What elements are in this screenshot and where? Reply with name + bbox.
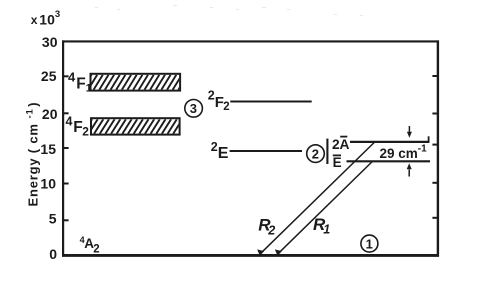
svg-text:2A: 2A: [332, 137, 349, 152]
svg-text:): ): [25, 102, 40, 106]
svg-text:3: 3: [190, 101, 197, 116]
svg-text:2: 2: [208, 89, 215, 103]
brace bar grouping 2A and E: [326, 139, 328, 164]
svg-text:2: 2: [93, 244, 99, 256]
axis frame box: [62, 40, 439, 256]
svg-text:0: 0: [49, 246, 57, 262]
svg-text:5: 5: [49, 211, 57, 227]
transition R1 line: [278, 162, 372, 254]
label E-bar: [333, 155, 342, 170]
svg-text:10: 10: [40, 176, 56, 192]
level 2E line: [230, 150, 302, 152]
right axis ticks: [432, 76, 438, 218]
svg-text:30: 30: [42, 34, 58, 50]
R1 arrowhead: [275, 249, 282, 255]
svg-text:20: 20: [42, 106, 58, 122]
svg-text:25: 25: [41, 68, 57, 84]
svg-text:4: 4: [66, 114, 73, 128]
arrow down to 2A line: [407, 126, 412, 138]
label 4F2: [66, 114, 90, 138]
R2 arrowhead: [257, 249, 264, 255]
label 2F2: [208, 89, 230, 114]
arrow up to E line: [407, 163, 412, 176]
scan specks: [95, 5, 363, 16]
svg-text:29 cm-1: 29 cm-1: [380, 144, 428, 162]
svg-text:2: 2: [267, 224, 275, 238]
left axis ticks: [63, 76, 69, 220]
svg-text:x103: x103: [31, 9, 60, 27]
circled 2: [307, 145, 325, 163]
label R1: [313, 215, 330, 237]
svg-text:E: E: [218, 145, 229, 162]
x10^3 scale label: [31, 9, 60, 27]
y tick labels: [40, 34, 57, 262]
svg-text:2: 2: [223, 101, 229, 113]
band 4F2 hatched rect: [83, 118, 183, 134]
label 2A-bar: [332, 137, 349, 152]
svg-text:1: 1: [366, 236, 373, 251]
svg-text:1: 1: [86, 83, 92, 95]
svg-text:-1: -1: [24, 108, 35, 118]
svg-text:15: 15: [40, 141, 56, 157]
transition R2 line: [260, 142, 375, 254]
svg-text:F: F: [76, 75, 85, 92]
label 4F1: [68, 70, 92, 95]
band 4F1 hatched rect: [82, 74, 187, 91]
y axis title Energy (cm-1): [24, 102, 40, 206]
level 2A-bar line with end hook: [350, 136, 429, 142]
label 2E: [211, 140, 229, 162]
svg-text:E: E: [333, 155, 342, 170]
level E-bar line: [347, 160, 431, 162]
circled 1: [361, 235, 378, 252]
svg-text:2: 2: [82, 125, 89, 139]
label 4A2 ground state: [80, 235, 100, 256]
circled 3: [185, 100, 203, 118]
svg-text:2: 2: [211, 140, 218, 154]
svg-text:Energy ( cm: Energy ( cm: [25, 123, 40, 206]
svg-text:4: 4: [68, 70, 76, 85]
svg-text:2: 2: [312, 146, 319, 161]
level 2F2 line: [230, 100, 311, 102]
label R2: [258, 216, 275, 238]
svg-text:1: 1: [323, 223, 330, 237]
